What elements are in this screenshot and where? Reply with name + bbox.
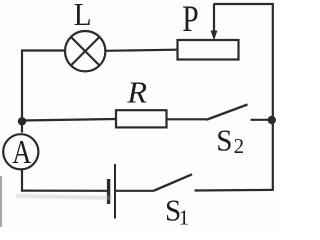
scan artifact: left edge dark strip [0,176,2,227]
switch S2 blade [207,105,248,120]
wire: top horizontal from slider to right side [214,3,273,5]
label P [182,0,198,40]
label S2 [216,123,244,158]
wire: ammeter bottom to bottom-left corner [21,170,23,192]
label L [74,0,92,33]
node: right junction [268,116,276,124]
ammeter A [3,133,38,171]
svg-text:P: P [182,0,198,40]
battery: short thick plate (negative) [107,179,110,204]
wire: bottom horizontal to battery [21,190,107,192]
resistor R [116,110,167,127]
wire: junction to resistor [22,119,116,121]
wire: top-left horizontal to lamp [21,49,65,51]
wire: resistor to switch S2 [167,118,208,120]
svg-text:2: 2 [234,134,245,158]
svg-text:R: R [126,75,147,109]
svg-text:L: L [74,0,92,33]
battery: long thin plate (positive) [114,164,116,219]
label S1 [165,193,189,230]
switch S1 blade [154,174,192,190]
rheostat slider arrow [211,4,218,41]
svg-text:A: A [12,133,31,171]
wire: lamp to rheostat [105,50,177,51]
rheostat P body [178,40,239,60]
svg-text:1: 1 [179,206,190,228]
wire: right vertical [272,3,274,190]
lamp L [65,31,105,71]
label R [126,75,147,109]
node: left junction [18,117,26,125]
wire: S2 contact to right junction [251,119,271,121]
scan artifact: faint smudge under bottom-left wire [16,195,112,200]
wire: S1 contact to bottom-right corner [195,189,274,192]
wire: left vertical from top-left corner down to junction [21,51,23,133]
svg-text:S: S [216,123,232,158]
wire: battery to switch S1 [116,190,154,192]
